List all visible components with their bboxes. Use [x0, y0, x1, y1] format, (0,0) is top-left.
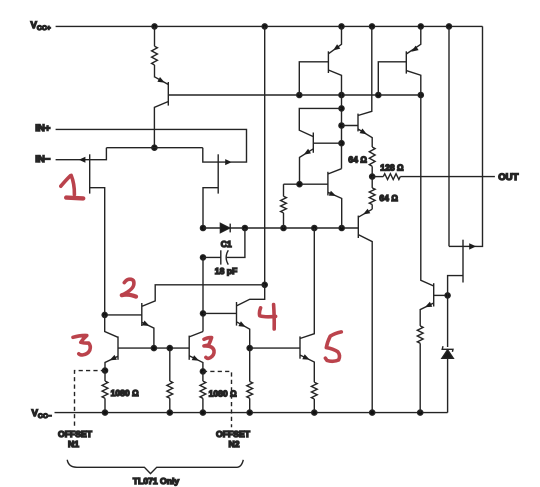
node junction J2 drain/comp line [200, 225, 205, 230]
svg-text:IN+: IN+ [35, 123, 51, 134]
node junction mirror base/Q8 emitter [151, 346, 156, 351]
transistor J1 input JFET (annotated 1) [89, 154, 91, 193]
node junction Q4 base tie [339, 141, 344, 146]
svg-text:OUT: OUT [498, 172, 518, 183]
node junction mid rail/Q8/Q11 collectors [262, 282, 267, 287]
node junction VCC+/Q5 collector [369, 24, 374, 29]
wire right vertical rail from VCC+ corner down to output JFET gate [477, 26, 483, 246]
node junction VCC+/Q3 emitter [418, 24, 423, 29]
svg-text:64 Ω: 64 Ω [379, 193, 398, 203]
transistor Q12 (annotated 5) [250, 347, 300, 349]
node junction VCC-/R5 [247, 410, 252, 415]
transistor Q9 mirror left (annotated 3) [117, 336, 119, 359]
resistor R4 1080 ohm [202, 371, 204, 381]
transistor Q1 PNP current source [167, 82, 169, 106]
node junction common sources/Q1 collector [152, 145, 157, 150]
transistor Q6 NPN cascade [327, 172, 329, 196]
svg-text:C1: C1 [221, 239, 232, 249]
transistor Q8 (annotated 2) [141, 303, 143, 326]
node junction comp line/Q12 collector [312, 225, 317, 230]
node junction Q13 base/J3 source [445, 293, 450, 298]
node junction bias/Q2 base [297, 92, 302, 97]
node junction comp line/Q6 emitter [339, 225, 344, 230]
transistor Q13 PNP output protection [433, 283, 435, 306]
annotation 3 right (red) [204, 338, 214, 359]
capacitor C1 18 pF [203, 256, 221, 258]
transistor Q7 PNP output (lower) [357, 216, 359, 238]
resistor R8 128 ohm to OUT [372, 176, 383, 178]
transistor Q10 mirror right (annotated 3) [188, 336, 190, 360]
node junction VCC+/mid rail [262, 24, 267, 29]
node junction Q4 emitter/Q6 base [297, 182, 302, 187]
node junction J1 drain/Q8 base/Q9 collector [102, 312, 107, 317]
wire Q2 base/collector tie to Q4 collector [341, 95, 343, 169]
node junction VCC+/J3 drain rail [446, 24, 451, 29]
node junction VCC-/Q7 collector [370, 410, 375, 415]
node junction Q4 collector tie [339, 106, 344, 111]
transistor Q3 top PNP (right) [405, 51, 407, 73]
wire OUT line [400, 176, 495, 178]
node junction R7/R8/R9 output node [370, 174, 375, 179]
node junction VCC-/R6 [312, 410, 317, 415]
wire dashed OFFSET N2 [203, 371, 232, 427]
wire IN+ lead to right JFET gate [56, 129, 247, 162]
wire VCC+ top rail [56, 25, 483, 27]
resistor R5 (Q11 emitter) [249, 348, 251, 381]
resistor R11 (second stage emitter) [283, 184, 285, 196]
resistor R9 64 ohm (lower) [371, 177, 373, 188]
annotation 5 (red) [325, 332, 341, 361]
transistor Q5 NPN output driver (upper) [357, 114, 359, 132]
transistor Q2 top PNP mirror (diode-connected) [327, 51, 329, 73]
svg-text:N2: N2 [229, 439, 240, 449]
diode D2 [442, 346, 453, 352]
node junction bias/Q3 base [376, 92, 381, 97]
resistor R7 64 ohm (upper) [369, 147, 375, 166]
wire comp column x=203 down to mirror [202, 257, 204, 331]
node junction D1 cathode/C1 [242, 225, 247, 230]
svg-text:OFFSET: OFFSET [216, 429, 251, 439]
annotation 4 (red) [259, 305, 275, 329]
wire compensation line to lower output base [230, 227, 358, 229]
resistor R10 (protection) [417, 326, 423, 343]
annotation 1 (red) [61, 175, 83, 198]
transistor Q4 NPN second stage input [312, 133, 314, 153]
annotation 3 left (red) [73, 335, 90, 355]
node junction VCC-/R3 [167, 410, 172, 415]
transistor Q11 (annotated 4) [237, 285, 265, 306]
node junction bias/Q2 collector [339, 92, 344, 97]
wire IN- lead to left JFET gate [56, 159, 90, 161]
diode D1 [203, 227, 220, 229]
node junction VCC+/Q2 emitter [339, 24, 344, 29]
resistor R3 (mirror degeneration) [169, 348, 171, 381]
svg-text:18 pF: 18 pF [215, 266, 237, 276]
node junction VCC-/R4 [200, 410, 205, 415]
resistor R1 (current source bias, top left) [154, 26, 156, 46]
node junction Q11 base tie [200, 311, 205, 316]
node OFFSET N1 tap junction [102, 368, 107, 373]
annotation 2 (red) [122, 279, 136, 296]
node junction C1 left plate tie [200, 255, 205, 260]
node junction bias/Q3 collector [418, 92, 423, 97]
wire J3 source to diode D2 [447, 295, 449, 347]
wire common source line [106, 147, 202, 149]
svg-text:64 Ω: 64 Ω [348, 155, 367, 165]
node junction VCC+/R1 [152, 24, 157, 29]
wire bias line from Q1 base to right [168, 94, 420, 96]
wire Q8 collector link [142, 285, 265, 307]
wire VCC- bottom rail [55, 412, 448, 414]
svg-text:128 Ω: 128 Ω [380, 162, 404, 172]
node junction mirror base/R3 [167, 346, 172, 351]
wire dashed OFFSET N1 [75, 371, 106, 427]
svg-text:TL071 Only: TL071 Only [133, 476, 180, 486]
svg-text:1080 Ω: 1080 Ω [111, 388, 140, 398]
transistor J2 input JFET (right) [217, 154, 219, 193]
brace TL071 Only [67, 460, 243, 474]
node OFFSET N2 tap junction [200, 369, 205, 374]
node junction VCC-/R2 [102, 410, 107, 415]
wire J1 drain down-left column [90, 188, 105, 315]
svg-text:1080 Ω: 1080 Ω [209, 388, 238, 398]
svg-text:N1: N1 [68, 439, 79, 449]
transistor J3 output JFET current source [448, 26, 450, 246]
wire mid rail x=265 from VCC+ down to Q8/Q11 collectors [264, 26, 266, 284]
node junction comp line/R11 [281, 225, 286, 230]
resistor R6 (Q12 emitter) [311, 382, 317, 399]
node junction VCC-/R10 [418, 410, 423, 415]
wire J2 drain down to compensation line [203, 188, 218, 228]
resistor R2 1080 ohm [104, 371, 106, 381]
svg-text:OFFSET: OFFSET [58, 429, 93, 439]
node junction Q5 base tie [339, 123, 344, 128]
svg-text:IN−: IN− [35, 154, 51, 165]
